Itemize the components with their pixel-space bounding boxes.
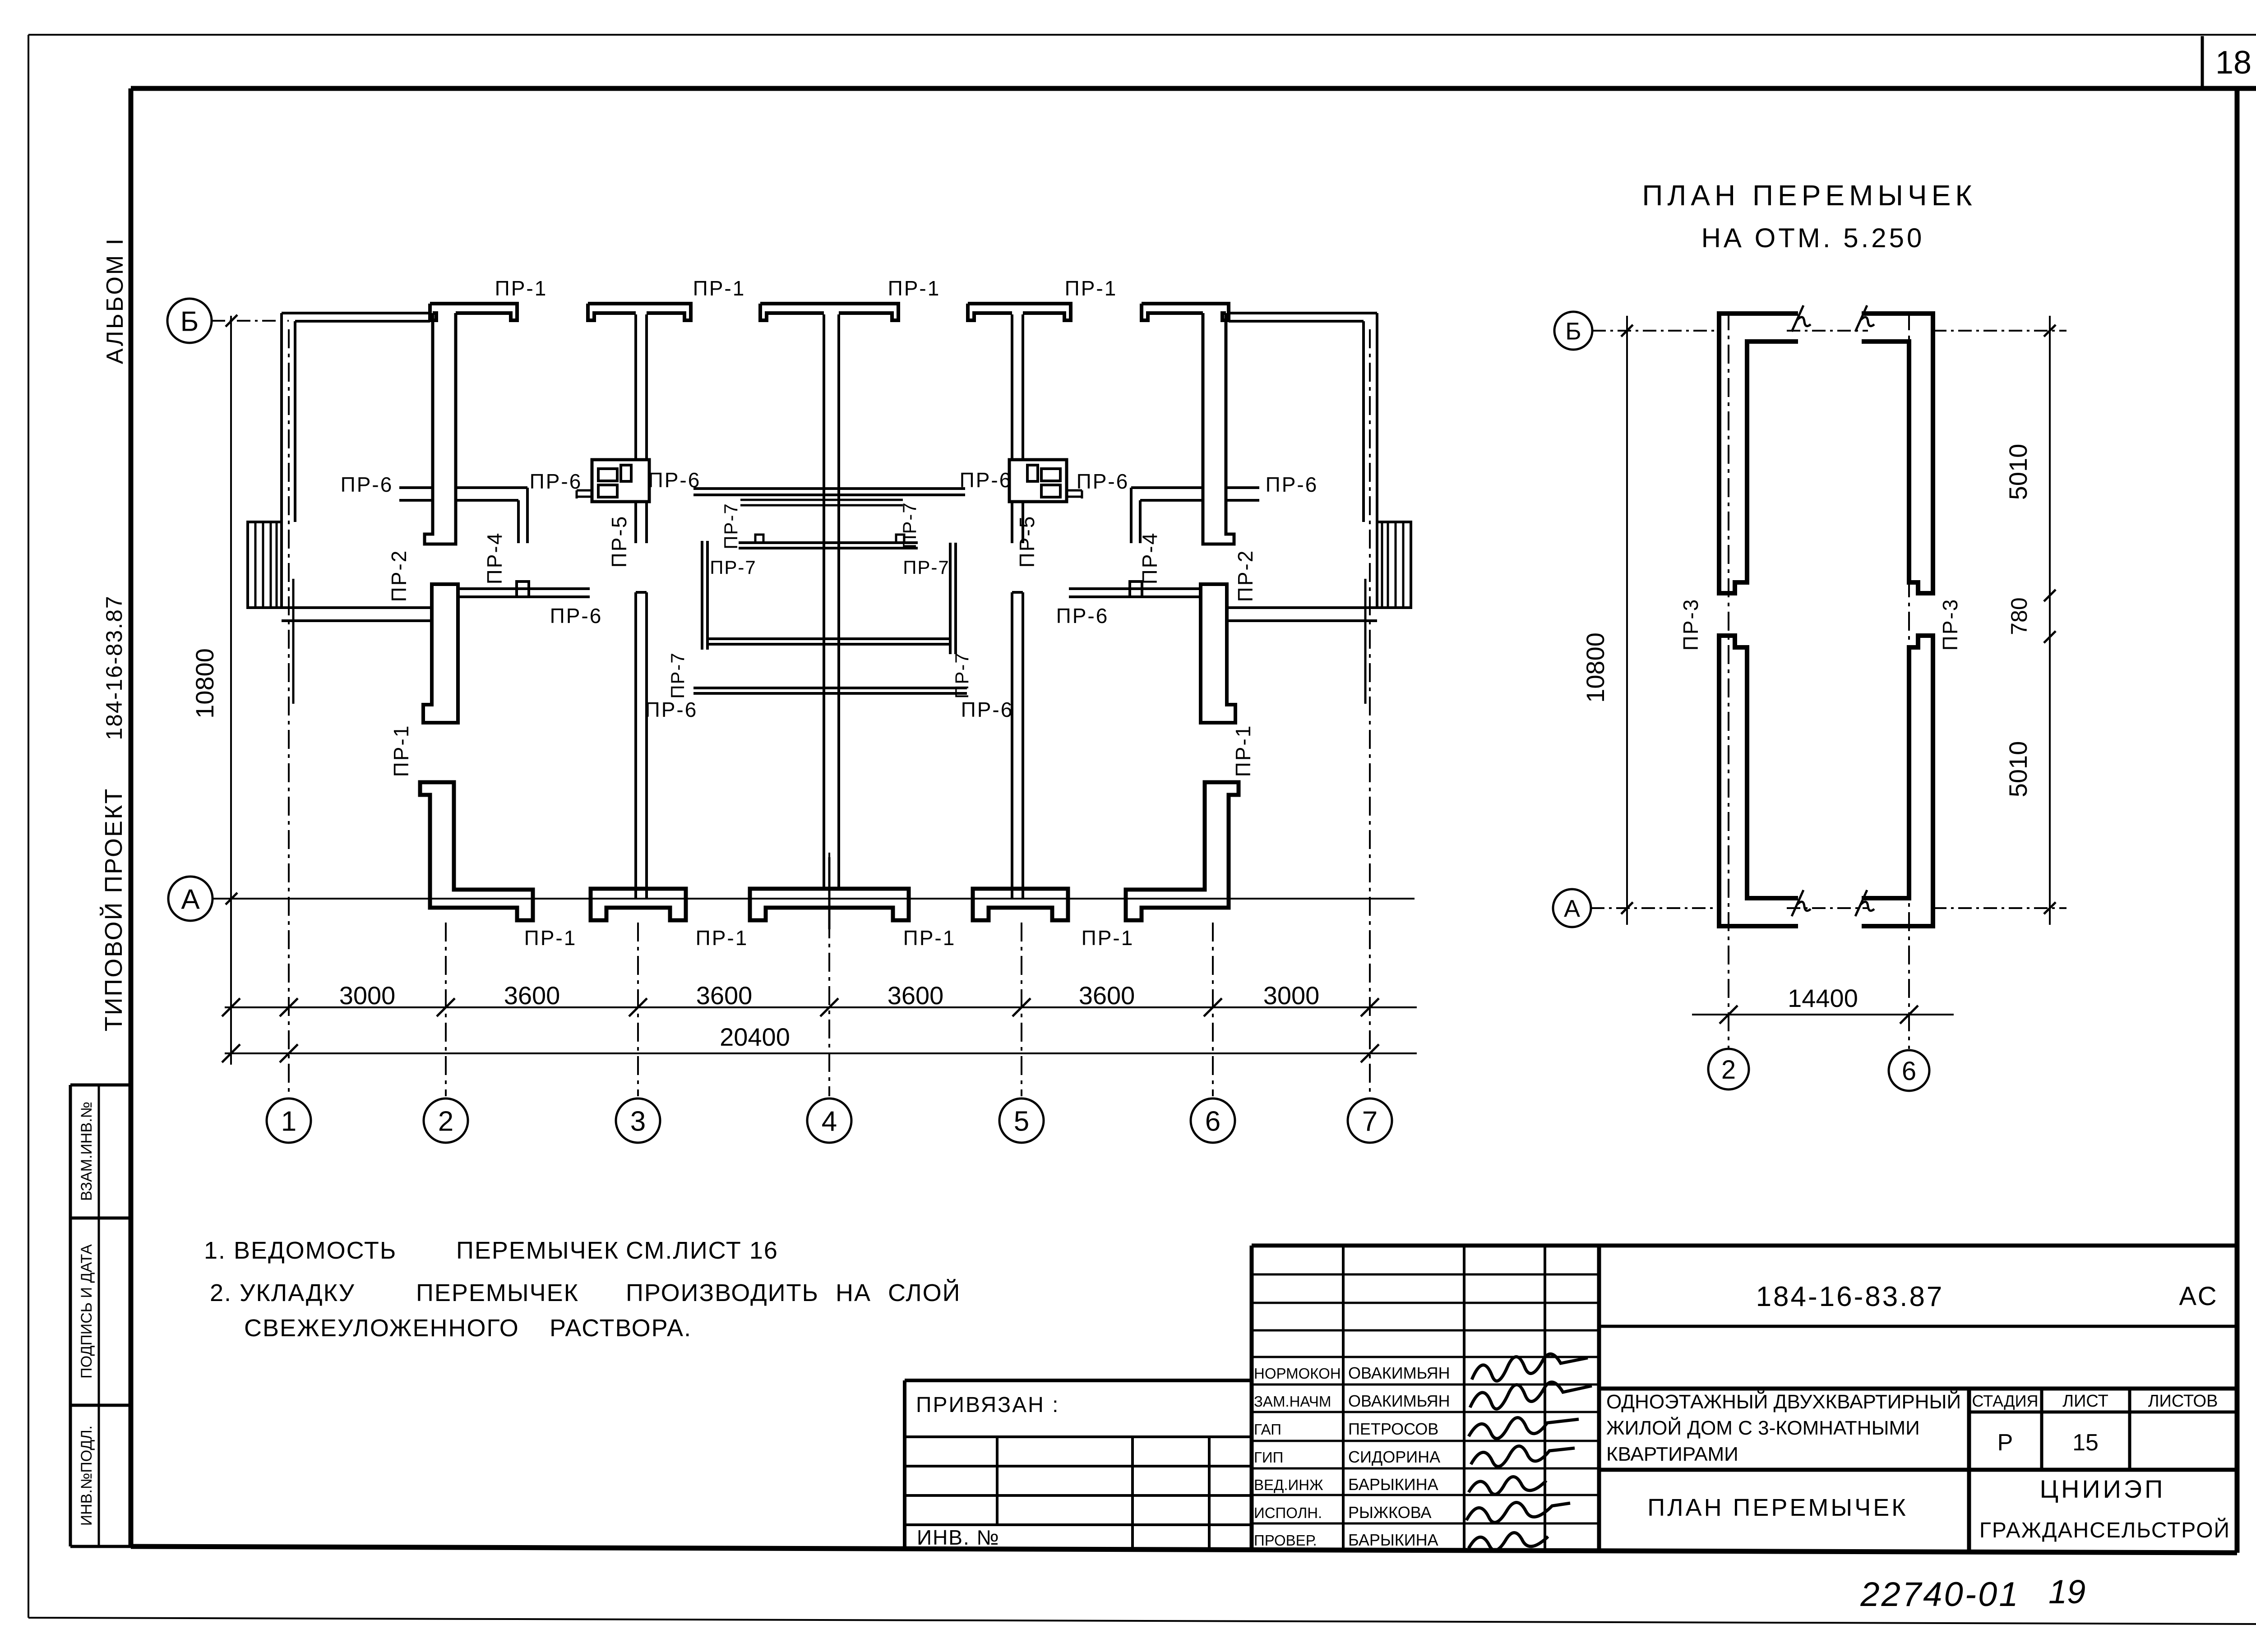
- svg-text:5010: 5010: [2004, 741, 2032, 798]
- svg-text:БАРЫКИНА: БАРЫКИНА: [1348, 1531, 1438, 1549]
- svg-text:ПЛАН ПЕРЕМЫЧЕК: ПЛАН ПЕРЕМЫЧЕК: [1647, 1494, 1908, 1521]
- svg-text:Р: Р: [1997, 1430, 2013, 1456]
- svg-text:184-16-83.87: 184-16-83.87: [1756, 1281, 1944, 1312]
- svg-text:7: 7: [1362, 1106, 1378, 1137]
- svg-text:ПР-1: ПР-1: [696, 926, 749, 950]
- svg-text:ПЕТРОСОВ: ПЕТРОСОВ: [1348, 1420, 1438, 1438]
- svg-text:ГАП: ГАП: [1254, 1421, 1281, 1438]
- svg-text:ЗАМ.НАЧМ: ЗАМ.НАЧМ: [1254, 1393, 1331, 1410]
- svg-text:22740-01: 22740-01: [1860, 1575, 2020, 1614]
- svg-text:ПР-6: ПР-6: [1266, 473, 1318, 496]
- svg-text:3600: 3600: [1079, 981, 1135, 1010]
- svg-text:ПР-4: ПР-4: [1138, 532, 1161, 585]
- svg-text:КВАРТИРАМИ: КВАРТИРАМИ: [1606, 1443, 1738, 1465]
- svg-text:ПР-3: ПР-3: [1938, 598, 1962, 651]
- svg-text:6: 6: [1205, 1106, 1220, 1137]
- svg-text:ПР-4: ПР-4: [483, 532, 506, 585]
- svg-text:ПР-6: ПР-6: [961, 698, 1014, 721]
- svg-text:А: А: [181, 884, 200, 915]
- svg-text:ПРОВЕР.: ПРОВЕР.: [1254, 1532, 1317, 1549]
- svg-text:А: А: [1564, 895, 1580, 922]
- svg-text:БАРЫКИНА: БАРЫКИНА: [1348, 1475, 1438, 1494]
- svg-text:ПР-6: ПР-6: [648, 468, 701, 492]
- svg-text:СЛОЙ: СЛОЙ: [888, 1279, 961, 1306]
- svg-text:ПР-6: ПР-6: [550, 604, 603, 628]
- svg-text:СМ.ЛИСТ 16: СМ.ЛИСТ 16: [626, 1237, 778, 1264]
- svg-text:ПР-3: ПР-3: [1679, 598, 1702, 651]
- svg-text:ПР-6: ПР-6: [1077, 470, 1129, 493]
- svg-text:ПР-5: ПР-5: [1015, 515, 1039, 568]
- svg-text:ПЕРЕМЫЧЕК: ПЕРЕМЫЧЕК: [456, 1237, 619, 1264]
- svg-text:780: 780: [2006, 597, 2032, 635]
- svg-text:ПР-1: ПР-1: [495, 277, 548, 300]
- svg-text:ОВАКИМЬЯН: ОВАКИМЬЯН: [1348, 1364, 1450, 1382]
- svg-text:ПОДПИСЬ И ДАТА: ПОДПИСЬ И ДАТА: [78, 1244, 95, 1379]
- svg-text:ТИПОВОЙ ПРОЕКТ: ТИПОВОЙ ПРОЕКТ: [100, 788, 127, 1032]
- svg-text:ПР-7: ПР-7: [710, 557, 757, 578]
- svg-text:3000: 3000: [1263, 981, 1320, 1010]
- svg-text:2: 2: [1721, 1055, 1736, 1084]
- svg-text:ПР-6: ПР-6: [960, 468, 1012, 492]
- svg-text:ПР-5: ПР-5: [607, 515, 631, 568]
- svg-text:4: 4: [822, 1106, 837, 1137]
- svg-text:5: 5: [1014, 1106, 1029, 1137]
- svg-text:ПР-7: ПР-7: [899, 502, 920, 549]
- svg-text:СВЕЖЕУЛОЖЕННОГО: СВЕЖЕУЛОЖЕННОГО: [244, 1315, 519, 1342]
- svg-text:ЛИСТОВ: ЛИСТОВ: [2148, 1392, 2218, 1411]
- svg-text:ПРИВЯЗАН :: ПРИВЯЗАН :: [916, 1393, 1059, 1417]
- svg-text:ПР-7: ПР-7: [903, 557, 950, 578]
- svg-text:ПР-6: ПР-6: [645, 698, 698, 721]
- svg-text:ПР-1: ПР-1: [389, 724, 413, 777]
- svg-text:НА: НА: [836, 1279, 871, 1306]
- svg-text:ВЗАМ.ИНВ.№: ВЗАМ.ИНВ.№: [78, 1102, 95, 1201]
- svg-text:ОВАКИМЬЯН: ОВАКИМЬЯН: [1348, 1392, 1450, 1410]
- svg-text:14400: 14400: [1788, 984, 1858, 1012]
- svg-text:ПР-6: ПР-6: [1056, 604, 1109, 628]
- svg-text:ГИП: ГИП: [1254, 1449, 1283, 1466]
- svg-text:2. УКЛАДКУ: 2. УКЛАДКУ: [210, 1279, 355, 1306]
- svg-text:ПР-2: ПР-2: [387, 549, 411, 602]
- svg-text:ПР-7: ПР-7: [951, 652, 972, 699]
- svg-text:1: 1: [281, 1106, 296, 1137]
- svg-text:ПР-6: ПР-6: [341, 473, 393, 496]
- svg-text:20400: 20400: [720, 1023, 790, 1051]
- svg-text:19: 19: [2048, 1573, 2085, 1610]
- svg-text:РЫЖКОВА: РЫЖКОВА: [1348, 1503, 1432, 1522]
- svg-text:СИДОРИНА: СИДОРИНА: [1348, 1448, 1440, 1466]
- svg-text:6: 6: [1902, 1057, 1916, 1086]
- svg-text:ПР-1: ПР-1: [524, 926, 577, 950]
- svg-text:СТАДИЯ: СТАДИЯ: [1972, 1392, 2038, 1410]
- svg-text:АС: АС: [2179, 1282, 2218, 1311]
- svg-text:ПЕРЕМЫЧЕК: ПЕРЕМЫЧЕК: [416, 1279, 579, 1306]
- svg-text:ЦНИИЭП: ЦНИИЭП: [2040, 1475, 2166, 1503]
- svg-text:ПЛАН ПЕРЕМЫЧЕК: ПЛАН ПЕРЕМЫЧЕК: [1642, 179, 1976, 212]
- svg-text:3: 3: [630, 1106, 646, 1137]
- svg-text:ПР-6: ПР-6: [530, 470, 582, 493]
- svg-text:15: 15: [2072, 1430, 2099, 1456]
- svg-text:1. ВЕДОМОСТЬ: 1. ВЕДОМОСТЬ: [204, 1237, 397, 1264]
- svg-text:3000: 3000: [339, 981, 396, 1010]
- svg-text:ПР-1: ПР-1: [1082, 926, 1134, 950]
- svg-text:НА ОТМ. 5.250: НА ОТМ. 5.250: [1701, 223, 1925, 253]
- svg-text:3600: 3600: [888, 981, 944, 1010]
- svg-text:РАСТВОРА.: РАСТВОРА.: [550, 1315, 692, 1342]
- svg-text:ПРОИЗВОДИТЬ: ПРОИЗВОДИТЬ: [626, 1279, 819, 1306]
- svg-text:10800: 10800: [1581, 632, 1609, 703]
- svg-text:ПР-1: ПР-1: [903, 926, 956, 950]
- svg-text:ЛИСТ: ЛИСТ: [2062, 1392, 2108, 1411]
- svg-text:ПР-2: ПР-2: [1234, 549, 1257, 602]
- svg-text:ВЕД.ИНЖ: ВЕД.ИНЖ: [1254, 1477, 1323, 1493]
- svg-text:ИСПОЛН.: ИСПОЛН.: [1254, 1504, 1322, 1521]
- svg-text:3600: 3600: [504, 981, 560, 1010]
- svg-text:ПР-7: ПР-7: [667, 652, 688, 699]
- svg-text:НОРМОКОН: НОРМОКОН: [1254, 1365, 1341, 1382]
- svg-text:ИНВ. №: ИНВ. №: [917, 1526, 1000, 1549]
- svg-text:ПР-1: ПР-1: [1231, 724, 1255, 777]
- svg-text:5010: 5010: [2004, 444, 2032, 500]
- svg-text:ИНВ.№ПОДЛ.: ИНВ.№ПОДЛ.: [78, 1426, 95, 1526]
- svg-text:ЖИЛОЙ ДОМ С 3-КОМНАТНЫМИ: ЖИЛОЙ ДОМ С 3-КОМНАТНЫМИ: [1606, 1416, 1920, 1439]
- svg-text:Б: Б: [1565, 318, 1581, 345]
- svg-text:Б: Б: [180, 306, 199, 337]
- svg-text:2: 2: [438, 1106, 453, 1137]
- svg-text:ОДНОЭТАЖНЫЙ ДВУХКВАРТИРНЫЙ: ОДНОЭТАЖНЫЙ ДВУХКВАРТИРНЫЙ: [1606, 1390, 1961, 1413]
- svg-text:ПР-7: ПР-7: [720, 503, 741, 549]
- svg-text:10800: 10800: [190, 648, 219, 719]
- svg-text:ПР-1: ПР-1: [693, 277, 746, 300]
- svg-text:АЛЬБОМ I: АЛЬБОМ I: [102, 237, 128, 364]
- svg-text:18: 18: [2215, 45, 2251, 81]
- svg-text:ГРАЖДАНСЕЛЬСТРОЙ: ГРАЖДАНСЕЛЬСТРОЙ: [1979, 1518, 2230, 1542]
- svg-text:ПР-1: ПР-1: [888, 277, 941, 300]
- svg-text:ПР-1: ПР-1: [1065, 277, 1118, 300]
- svg-text:3600: 3600: [696, 981, 753, 1010]
- svg-text:184-16-83.87: 184-16-83.87: [102, 595, 127, 740]
